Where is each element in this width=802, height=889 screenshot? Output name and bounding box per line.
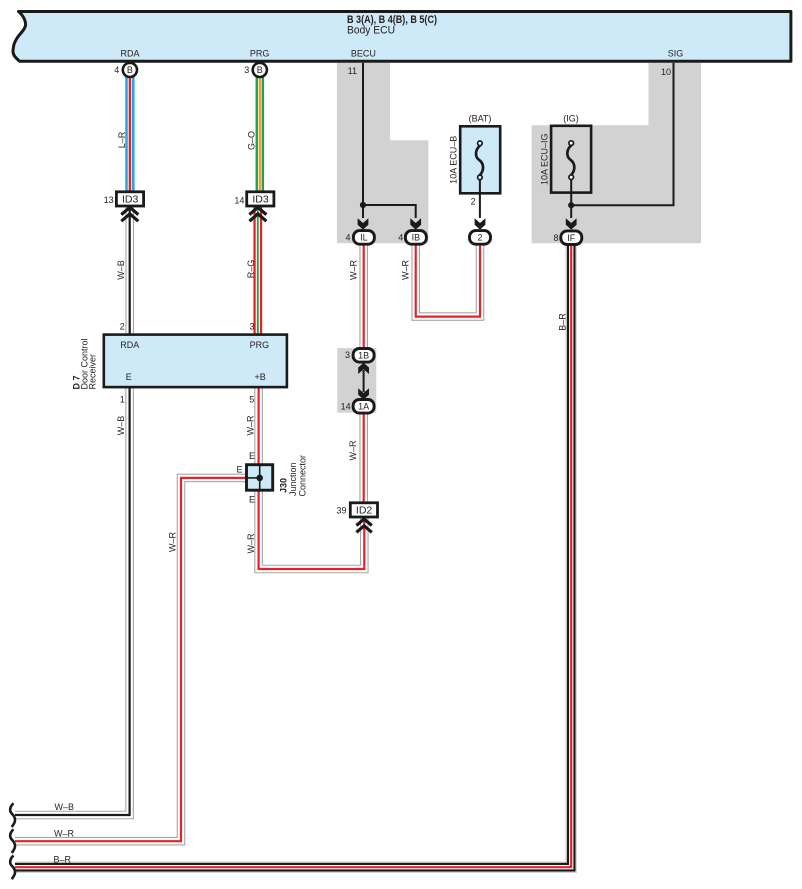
svg-text:(IG): (IG)	[563, 114, 579, 124]
wire-continuation squiggle W-R	[10, 829, 15, 853]
svg-text:B–R: B–R	[54, 855, 72, 865]
fuse element BAT	[479, 180, 481, 194]
svg-text:B–R: B–R	[558, 313, 568, 331]
connector IB oval	[405, 231, 426, 245]
arrow into IB	[410, 218, 421, 229]
svg-text:E: E	[249, 451, 255, 461]
component J30 junction connector box	[247, 465, 273, 491]
svg-text:SIG: SIG	[668, 49, 684, 59]
svg-text:J30: J30	[279, 478, 289, 493]
wire B-R from IF to bottom left	[15, 245, 571, 867]
pin 3 (B) circle at PRG	[253, 63, 267, 77]
svg-text:IB: IB	[412, 233, 421, 243]
wire-continuation squiggle W-B	[10, 803, 15, 827]
svg-text:1A: 1A	[358, 402, 369, 412]
wire L-R from pin 4 (B) to 13 ID3	[125, 76, 134, 192]
svg-text:B: B	[127, 65, 133, 75]
wire W-R from IL to 3 1B	[359, 244, 368, 348]
svg-text:BECU: BECU	[351, 49, 376, 59]
svg-text:E: E	[236, 465, 242, 475]
svg-text:11: 11	[348, 66, 357, 76]
inline connector 1A oval	[353, 400, 374, 414]
svg-text:13: 13	[104, 195, 114, 205]
svg-text:PRG: PRG	[250, 340, 270, 350]
svg-text:2: 2	[471, 197, 476, 207]
svg-text:G–O: G–O	[246, 131, 256, 150]
THIN BLACK WIRES	[360, 63, 674, 218]
arrow into IF	[566, 218, 577, 229]
svg-text:+B: +B	[255, 372, 266, 382]
svg-text:IF: IF	[567, 233, 576, 243]
arrow down into 1A	[358, 388, 369, 399]
COLORED WIRES	[15, 76, 571, 867]
wire-continuation squiggle B-R	[10, 856, 15, 880]
wire BAT fuse lead to connector 2	[479, 180, 481, 218]
node J30 junction dot	[256, 475, 263, 482]
svg-text:E: E	[249, 495, 255, 505]
wire W-B from 13 ID3 to Door Control Receiver pin 2	[125, 207, 134, 335]
inline connector 1B oval	[353, 349, 374, 363]
svg-text:4: 4	[345, 233, 350, 243]
svg-text:10A ECU–B: 10A ECU–B	[449, 136, 459, 184]
connector 39 ID2	[350, 503, 377, 517]
wire branch node to IB	[363, 205, 416, 218]
connector 2 oval	[470, 231, 491, 245]
svg-text:B: B	[257, 65, 263, 75]
pin 4 (B) circle at RDA	[123, 63, 137, 77]
connector 14 ID3	[247, 192, 274, 206]
svg-text:R–G: R–G	[246, 260, 256, 279]
shield chevron below 14 ID3	[249, 207, 266, 221]
arrow into IL	[358, 218, 369, 229]
wire G-O from pin 3 (B) to 14 ID3	[256, 76, 265, 192]
svg-text:8: 8	[553, 233, 558, 243]
svg-text:W–B: W–B	[116, 260, 126, 280]
svg-text:4: 4	[398, 233, 403, 243]
svg-text:W–R: W–R	[348, 440, 358, 461]
node IG junction dot	[568, 202, 574, 208]
BANNER Body ECU	[13, 12, 791, 62]
arrow up into 1B	[358, 363, 369, 374]
svg-text:10: 10	[661, 67, 671, 77]
svg-text:RDA: RDA	[120, 49, 139, 59]
net shading around inline connector 1B-1A	[337, 348, 376, 413]
shield chevron below 39 ID2	[356, 519, 371, 532]
svg-text:Junction: Junction	[288, 462, 298, 496]
wire W-B from Door Control Receiver pin 1 to bottom left	[15, 387, 130, 815]
svg-text:14: 14	[234, 196, 244, 206]
svg-text:14: 14	[341, 401, 351, 411]
svg-text:RDA: RDA	[120, 340, 139, 350]
svg-text:E: E	[126, 372, 132, 382]
component D7 Door Control Receiver box	[104, 335, 287, 388]
svg-text:5: 5	[249, 394, 254, 404]
svg-text:ID2: ID2	[356, 504, 373, 516]
svg-text:39: 39	[336, 506, 346, 516]
svg-text:W–R: W–R	[54, 829, 75, 839]
svg-text:1: 1	[120, 394, 125, 404]
wire IG fuse lead to connector IF	[570, 180, 572, 219]
svg-text:10A ECU–IG: 10A ECU–IG	[540, 133, 550, 185]
svg-text:3: 3	[249, 321, 254, 331]
node BECU junction dot	[360, 202, 366, 208]
wire W-R from J30 left E to bottom left	[15, 478, 247, 841]
svg-text:(BAT): (BAT)	[469, 114, 492, 124]
fuse element IG	[567, 145, 574, 175]
arrow into connector 2	[475, 218, 486, 229]
wire R-G from 14 ID3 to Door Control Receiver pin 3	[253, 207, 262, 334]
svg-text:W–R: W–R	[348, 260, 358, 281]
svg-text:Receiver: Receiver	[88, 354, 98, 390]
wire W-R from Door Control Receiver pin 5 to J30 top E	[254, 387, 263, 464]
svg-text:ID3: ID3	[122, 193, 139, 205]
shield chevron below 13 ID3	[121, 207, 138, 221]
wire BECU pin 11 down to node	[362, 63, 364, 218]
svg-text:Body ECU: Body ECU	[347, 25, 395, 37]
connector IF oval	[561, 231, 582, 245]
svg-text:PRG: PRG	[250, 49, 270, 59]
fuse 10A ECU-IG (IG) box	[551, 126, 591, 193]
connector IL oval	[353, 231, 374, 245]
wire W-R from IB to connector 2	[416, 244, 480, 316]
svg-text:W–R: W–R	[246, 533, 256, 554]
svg-text:4: 4	[114, 65, 119, 75]
svg-text:L–R: L–R	[117, 131, 127, 148]
net shading around IG fuse and connector IF	[532, 63, 701, 243]
svg-text:IL: IL	[360, 233, 368, 243]
fuse 10A ECU-B (BAT) box	[460, 126, 500, 193]
svg-text:Connector: Connector	[298, 455, 308, 497]
wire W-R from J30 bottom E to 39 ID2	[259, 490, 365, 569]
svg-text:W–R: W–R	[168, 532, 178, 553]
connector 13 ID3	[116, 192, 143, 206]
svg-text:W–R: W–R	[246, 415, 256, 436]
svg-text:3: 3	[345, 350, 350, 360]
net shading around BECU wire and connectors IL IB	[337, 63, 429, 243]
svg-text:2: 2	[477, 233, 482, 243]
svg-text:W–R: W–R	[400, 260, 410, 281]
wire SIG pin 10 down and left to IG node	[571, 63, 673, 205]
svg-text:2: 2	[120, 321, 125, 331]
svg-text:W–B: W–B	[116, 416, 126, 436]
svg-text:1B: 1B	[358, 351, 369, 361]
svg-text:3: 3	[244, 65, 249, 75]
link line between 1B and 1A	[363, 370, 365, 392]
svg-text:W–B: W–B	[55, 802, 75, 812]
wire W-R from 14 1A to 39 ID2	[359, 413, 368, 503]
svg-text:ID3: ID3	[252, 193, 269, 205]
